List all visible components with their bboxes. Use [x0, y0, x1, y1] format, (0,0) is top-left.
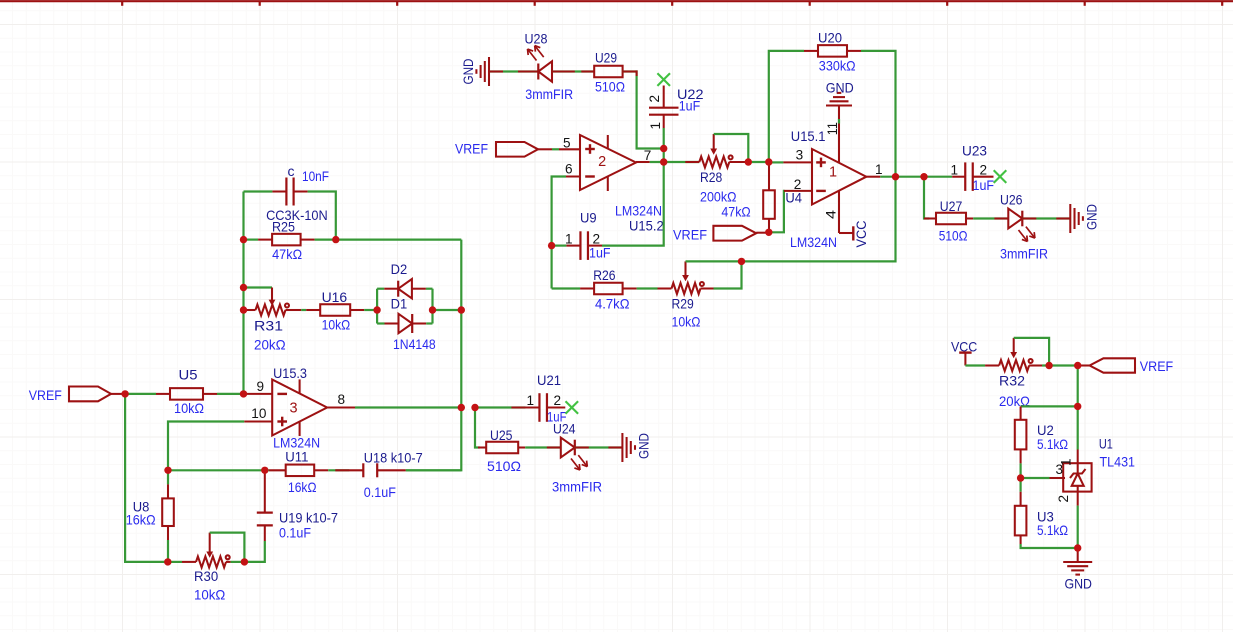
wire U15.1 output	[880, 176, 952, 178]
junction output U15.2	[660, 158, 667, 165]
svg-text:9: 9	[257, 379, 265, 394]
junction R28 right	[745, 158, 752, 165]
svg-text:GND: GND	[1084, 204, 1100, 230]
svg-text:10kΩ: 10kΩ	[672, 313, 701, 329]
wire R31 to U16	[301, 309, 306, 311]
svg-text:TL431: TL431	[1100, 454, 1136, 470]
resistor U27 510R	[924, 198, 973, 244]
svg-text:U9: U9	[580, 209, 597, 225]
ground GND (right of U24)	[622, 433, 651, 462]
wire ref node to TL431 pin3	[1021, 477, 1065, 479]
svg-text:GND: GND	[460, 59, 476, 85]
svg-text:U25: U25	[490, 427, 513, 443]
wire U11 row left	[168, 469, 269, 471]
wire cap c right side down to R25	[308, 192, 336, 240]
junction output U15.1	[892, 173, 899, 180]
svg-text:1: 1	[875, 162, 883, 177]
capacitor U9 1uF	[552, 209, 611, 260]
wire down to U27	[924, 177, 929, 219]
wire junction down to output node	[663, 149, 665, 163]
junction GND node	[1074, 544, 1081, 551]
resistor U11 16k	[269, 448, 328, 494]
wire U15.2 output to R28	[650, 161, 700, 163]
svg-text:1: 1	[951, 162, 959, 177]
LED U24 3mmFIR	[552, 420, 602, 494]
wire R30 wiper loop	[210, 533, 245, 562]
svg-text:U18 k10-7: U18 k10-7	[364, 449, 423, 465]
svg-text:11: 11	[825, 122, 840, 135]
junction VREF input	[121, 390, 128, 397]
junction R30 right node	[241, 558, 248, 565]
junction U2/U3/ref node	[1017, 474, 1024, 481]
svg-text:3: 3	[290, 401, 298, 417]
svg-text:510Ω: 510Ω	[595, 79, 625, 95]
wire R32 to VREF node	[1042, 364, 1078, 366]
op-amp U15.1 (LM324N unit 1)	[783, 128, 882, 250]
svg-text:5: 5	[563, 135, 571, 150]
svg-text:2: 2	[647, 95, 662, 103]
wire R31 wiper loop	[244, 286, 273, 288]
junction pin9 node	[240, 390, 247, 397]
ground GND (left of LED U28)	[460, 57, 489, 86]
svg-text:R31: R31	[254, 317, 283, 333]
svg-text:R29: R29	[672, 296, 694, 312]
potentiometer R30 10k	[168, 533, 245, 603]
capacitor U21 1uF	[475, 372, 567, 425]
svg-text:3: 3	[796, 147, 804, 162]
svg-text:U19 k10-7: U19 k10-7	[279, 510, 338, 526]
potentiometer R32 20k	[999, 338, 1042, 409]
svg-text:3mmFIR: 3mmFIR	[552, 479, 602, 495]
junction U27 branch	[920, 173, 927, 180]
svg-text:200kΩ: 200kΩ	[700, 189, 737, 205]
svg-text:U15.1: U15.1	[791, 128, 826, 144]
junction diodes left	[373, 306, 380, 313]
svg-text:VREF: VREF	[29, 387, 62, 403]
svg-text:47kΩ: 47kΩ	[272, 246, 302, 262]
svg-text:U1: U1	[1099, 435, 1113, 451]
svg-text:VREF: VREF	[1140, 358, 1173, 374]
wire VREF node down (main vertical)	[1077, 366, 1079, 450]
svg-text:2: 2	[1056, 495, 1071, 503]
svg-text:4: 4	[824, 209, 839, 219]
svg-text:10nF: 10nF	[302, 168, 329, 184]
svg-text:2: 2	[980, 162, 988, 177]
resistor U20 330k (feedback)	[769, 30, 896, 177]
svg-text:1: 1	[648, 122, 663, 130]
svg-text:GND: GND	[826, 80, 854, 96]
svg-text:510Ω: 510Ω	[939, 228, 968, 244]
resistor U3 5.1k	[1015, 478, 1078, 548]
resistor R25 47k	[244, 218, 315, 261]
net flag VREF (output, points left)	[1078, 358, 1174, 374]
svg-text:20kΩ: 20kΩ	[254, 336, 286, 352]
capacitor c 10nF	[244, 163, 330, 223]
svg-text:1: 1	[1059, 458, 1074, 466]
svg-text:5.1kΩ: 5.1kΩ	[1037, 522, 1068, 538]
wire down to U25	[475, 408, 480, 448]
svg-text:10kΩ: 10kΩ	[194, 587, 225, 603]
svg-text:3mmFIR: 3mmFIR	[1000, 245, 1048, 261]
wire R28 node to U4 node	[748, 161, 769, 163]
svg-text:16kΩ: 16kΩ	[288, 479, 317, 495]
potentiometer R31 20k	[244, 288, 302, 353]
svg-text:10kΩ: 10kΩ	[322, 317, 351, 333]
wire left vertical of feedback (x=243.5)	[242, 192, 244, 394]
svg-text:R25: R25	[272, 218, 295, 234]
junction U4 top node	[765, 158, 772, 165]
wire R26 to R29	[637, 287, 672, 289]
svg-text:GND: GND	[636, 433, 652, 459]
wire U11 to U18	[328, 469, 363, 471]
svg-text:U11: U11	[285, 448, 308, 464]
pin 4 + power VCC (below U15.1)	[824, 191, 870, 248]
svg-text:10: 10	[251, 406, 267, 421]
resistor U4 47k	[721, 162, 802, 232]
wire R32 wiper loop	[1014, 338, 1049, 366]
svg-text:5.1kΩ: 5.1kΩ	[1037, 436, 1068, 452]
wire U9 pin2 up to output node	[602, 162, 664, 246]
svg-text:D1: D1	[391, 296, 408, 312]
ground GND (bottom of TL431 block)	[1063, 548, 1092, 592]
svg-text:R26: R26	[593, 267, 615, 283]
wire R29 wiper loop	[686, 260, 742, 262]
capacitor U22 1uF	[647, 86, 704, 130]
net flag VREF (at U4 bottom)	[673, 226, 769, 243]
ground GND (right of U26)	[1070, 204, 1099, 233]
svg-text:U15.2: U15.2	[629, 217, 664, 233]
svg-text:1uF: 1uF	[973, 177, 995, 193]
svg-text:4.7kΩ: 4.7kΩ	[595, 296, 630, 312]
junction feedback vertical at diode row	[458, 306, 465, 313]
capacitor U19 k10-7 0.1uF	[257, 470, 338, 541]
resistor U8 16k	[126, 470, 174, 562]
svg-text:0.1uF: 0.1uF	[364, 484, 396, 500]
LED U26 3mmFIR	[1000, 191, 1048, 261]
wire VCC to R32	[965, 364, 999, 366]
svg-text:1uF: 1uF	[589, 245, 611, 261]
svg-text:10kΩ: 10kΩ	[174, 400, 204, 416]
LED U28 3mmFIR	[525, 31, 574, 102]
wire feedback vertical to output U15.3	[406, 240, 462, 471]
svg-text:U23: U23	[962, 142, 987, 158]
potentiometer R29 10k	[672, 261, 714, 329]
wire pin6 feedback vertical	[552, 177, 566, 289]
wire R25 to feedback vertical	[315, 239, 462, 241]
junction U11/U19 node	[261, 467, 268, 474]
junction VREF output node	[1074, 362, 1081, 369]
svg-text:GND: GND	[1065, 576, 1093, 592]
power VCC (top of TL431 block)	[951, 338, 977, 365]
wire U19 bottom to R30 row	[244, 541, 264, 562]
wire U15.3 output row	[355, 406, 461, 408]
junction U9 pin1 node	[548, 242, 555, 249]
svg-text:U20: U20	[818, 30, 842, 46]
wire U28 to U29	[552, 70, 594, 72]
svg-text:47kΩ: 47kΩ	[721, 204, 750, 220]
capacitor U23 1uF	[951, 142, 995, 193]
junction R25 right / cap c	[332, 236, 339, 243]
svg-text:U24: U24	[553, 420, 576, 436]
svg-text:1: 1	[565, 232, 573, 247]
svg-text:U29: U29	[595, 50, 617, 66]
svg-text:U28: U28	[525, 31, 548, 47]
svg-text:510Ω: 510Ω	[487, 458, 521, 474]
wire U16 to diodes	[364, 309, 377, 311]
svg-text:330kΩ: 330kΩ	[819, 58, 856, 74]
svg-text:16kΩ: 16kΩ	[126, 511, 156, 527]
wire branch to U2	[1021, 405, 1078, 407]
wire VREF node to U15.1 pin2	[769, 191, 785, 232]
op-amp U15.3 (LM324N unit 3)	[244, 365, 356, 451]
junction output/feedback	[458, 404, 465, 411]
wire R28 wiper loop	[714, 134, 749, 162]
junction U8 bottom	[164, 558, 171, 565]
wire TL431 pin2 down to GND row	[1077, 506, 1079, 548]
svg-text:1N4148: 1N4148	[393, 336, 436, 352]
junction pin10/U8 node	[164, 467, 171, 474]
junction R31 left node	[240, 306, 247, 313]
svg-text:D2: D2	[391, 261, 408, 277]
capacitor U18 k10-7 0.1uF	[363, 449, 423, 500]
junction output/U21 branch	[471, 404, 478, 411]
wire pin10 to U11 node	[168, 422, 244, 471]
wire U22 pin1 to junction	[663, 128, 665, 149]
svg-text:1uF: 1uF	[679, 98, 701, 114]
wire VREF flag to pin5	[552, 148, 559, 150]
wire U26 to GND	[1022, 217, 1070, 219]
net flag VREF (to U15.2 pin 5)	[455, 140, 552, 156]
resistor U16 10k	[306, 289, 364, 333]
wire R29 node to U15.1 output	[742, 177, 896, 262]
svg-text:U16: U16	[322, 289, 348, 305]
wire VREF node down and along bottom	[125, 394, 168, 562]
svg-text:U26: U26	[1000, 191, 1023, 207]
svg-text:R28: R28	[700, 169, 722, 185]
no-connect X on U23 pin2	[994, 170, 1007, 183]
wire U25 to U24	[525, 446, 561, 448]
ground GND (above U15.1)	[826, 80, 854, 106]
junction R31 wiper	[240, 284, 247, 291]
svg-text:7: 7	[644, 148, 652, 163]
wire diode box left vertical	[376, 289, 378, 324]
wire diode box right vertical	[426, 289, 433, 324]
svg-text:R32: R32	[999, 372, 1025, 388]
svg-text:8: 8	[338, 392, 346, 407]
svg-text:1: 1	[829, 165, 837, 181]
no-connect X on U21 pin2	[566, 401, 579, 414]
svg-text:R30: R30	[194, 568, 218, 584]
shunt regulator U1 TL431	[1056, 435, 1136, 505]
svg-text:2: 2	[554, 393, 562, 408]
no-connect X on U22 pin 2	[657, 73, 670, 86]
svg-text:LM324N: LM324N	[615, 202, 662, 218]
junction U4/VREF node	[765, 229, 772, 236]
junction U22/U29 node	[660, 145, 667, 152]
junction R29 loop node	[738, 258, 745, 265]
svg-text:U5: U5	[179, 366, 198, 382]
sheet border top edge	[0, 1, 1233, 6]
junction R32 loop node	[1045, 362, 1052, 369]
wire U5 to pin9 junction	[217, 393, 244, 395]
wire node to U15.1 pin3	[769, 161, 784, 163]
svg-text:U21: U21	[537, 372, 561, 388]
wire diodes to feedback vertical	[433, 309, 462, 311]
resistor U25 510R	[478, 427, 525, 474]
wire R29 right up to loop	[714, 261, 742, 288]
potentiometer R28 200k	[685, 134, 748, 205]
svg-text:c: c	[288, 163, 295, 179]
resistor U29 510R	[594, 50, 625, 95]
svg-text:VREF: VREF	[455, 140, 488, 156]
junction R25 left	[240, 236, 247, 243]
resistor U5 10k	[125, 366, 217, 416]
resistor R26 4.7k	[552, 267, 637, 312]
wire U27 to U26	[973, 217, 1008, 219]
op-amp U15.2 (LM324N unit 2)	[553, 135, 664, 233]
pin 11 wire U15.1	[825, 106, 840, 163]
svg-text:U15.3: U15.3	[273, 365, 307, 381]
svg-text:2: 2	[598, 154, 606, 170]
svg-text:1: 1	[527, 393, 535, 408]
wire U29 to node A (U22 bottom / pin7 net)	[623, 70, 664, 148]
svg-text:VCC: VCC	[853, 221, 869, 248]
svg-text:2: 2	[794, 177, 802, 192]
resistor U2 5.1k	[1015, 406, 1068, 478]
wire U18 to feedback vertical	[406, 469, 462, 471]
svg-text:6: 6	[565, 161, 573, 176]
svg-text:0.1uF: 0.1uF	[279, 524, 311, 540]
diode D1 (lower, pointing right)	[377, 296, 436, 353]
svg-text:VREF: VREF	[673, 226, 707, 242]
diode D2 (upper, pointing left)	[377, 261, 426, 298]
wire GND to U28	[489, 70, 538, 72]
junction diodes right	[429, 306, 436, 313]
wire U24 to GND	[575, 446, 623, 448]
svg-text:3mmFIR: 3mmFIR	[525, 86, 573, 102]
net flag VREF (input, far left)	[29, 387, 125, 404]
junction U2 branch	[1074, 403, 1081, 410]
svg-text:U27: U27	[940, 198, 963, 214]
svg-text:LM324N: LM324N	[790, 234, 837, 250]
